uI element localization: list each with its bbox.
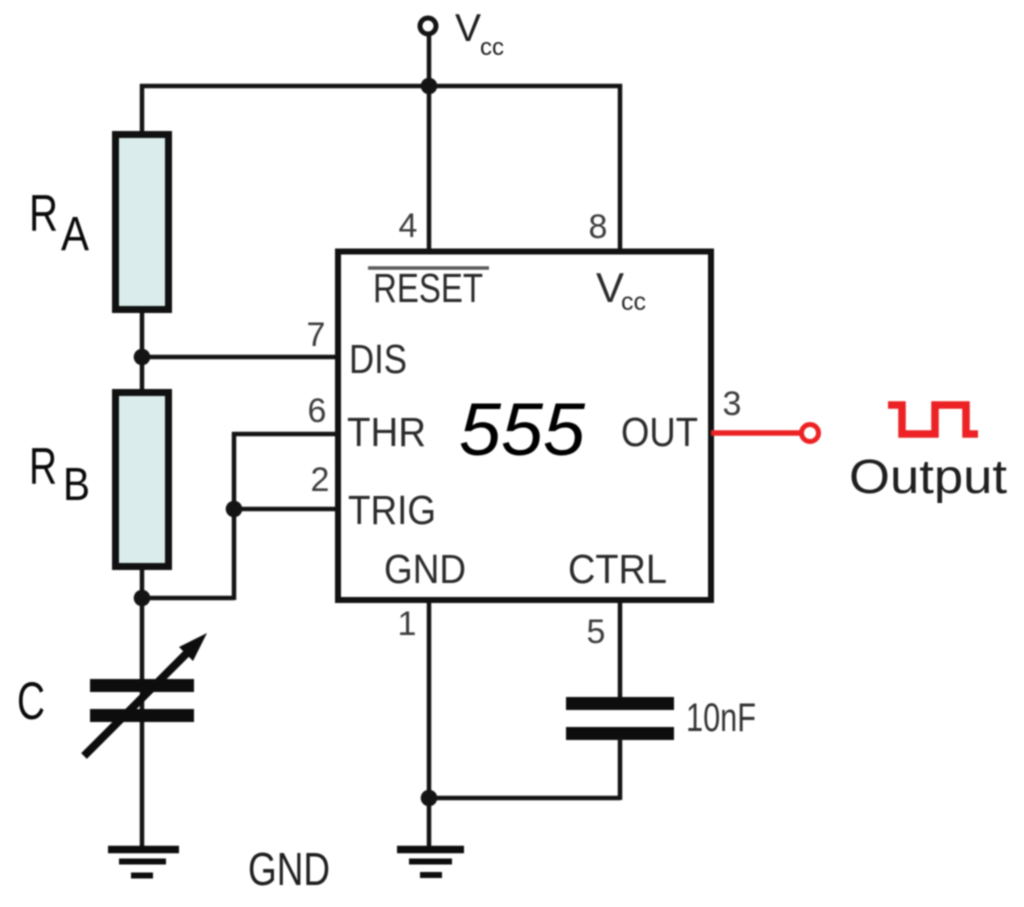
svg-text:THR: THR: [347, 409, 426, 455]
svg-text:GND: GND: [384, 546, 466, 592]
svg-text:3: 3: [723, 385, 742, 423]
svg-text:B: B: [63, 458, 90, 510]
node: TRIG junction dot: [226, 501, 243, 518]
wire: top supply rail: [140, 84, 622, 89]
output terminal (red): [802, 425, 819, 442]
svg-text:555: 555: [459, 388, 586, 471]
svg-text:V: V: [455, 7, 481, 50]
wire: Vcc terminal to pin 4 vertical: [427, 33, 432, 254]
wire: GND pin 1 down: [427, 598, 432, 800]
wire: 10nF to bottom rail: [618, 738, 623, 800]
svg-text:A: A: [61, 208, 89, 261]
resistor RA: [116, 135, 169, 310]
svg-text:2: 2: [311, 461, 330, 499]
wire: RB node to THR/TRIG branch: [140, 596, 234, 601]
wire: junction to right ground: [427, 798, 432, 848]
wire: vertical THR/TRIG branch: [232, 432, 237, 600]
node: Vcc junction dot: [421, 78, 438, 95]
op-amp U1: 555 IC body: [338, 252, 711, 601]
wire: RA to RB through DIS node: [140, 310, 145, 392]
capacitor 10nF top plate: [566, 697, 674, 710]
ground (left): [108, 846, 179, 854]
pin RESET overline: [368, 266, 489, 270]
svg-text:5: 5: [587, 613, 606, 651]
node: ground junction dot: [421, 790, 438, 807]
capacitor C plate bottom: [90, 709, 194, 722]
resistor RB: [116, 393, 169, 567]
svg-text:OUT: OUT: [621, 409, 698, 455]
svg-text:CTRL: CTRL: [568, 546, 667, 592]
svg-text:8: 8: [589, 208, 608, 246]
square wave symbol: [888, 405, 978, 434]
svg-text:6: 6: [308, 392, 327, 430]
wire: rail down to RA: [140, 84, 145, 136]
svg-text:DIS: DIS: [349, 336, 407, 382]
svg-text:cc: cc: [480, 34, 504, 61]
wire: RB down through C to ground: [140, 568, 145, 848]
wire: DIS pin 7: [142, 355, 341, 360]
node: DIS junction dot: [134, 349, 151, 366]
svg-text:1: 1: [398, 605, 417, 643]
svg-text:cc: cc: [621, 288, 646, 316]
svg-text:10nF: 10nF: [686, 696, 756, 740]
svg-text:R: R: [29, 185, 58, 243]
Vcc terminal: [420, 18, 436, 34]
wire: THR pin 6: [232, 432, 341, 437]
svg-text:R: R: [29, 438, 57, 496]
ground (right): [397, 846, 464, 854]
svg-text:GND: GND: [248, 843, 330, 895]
capacitor C plate top: [90, 679, 194, 692]
svg-text:V: V: [596, 264, 624, 311]
svg-text:TRIG: TRIG: [348, 487, 436, 533]
node: bottom of RB junction dot: [134, 590, 151, 607]
capacitor 10nF bottom plate: [566, 727, 674, 740]
wire: CTRL pin 5 down to 10nF: [618, 598, 623, 699]
svg-text:7: 7: [307, 316, 326, 354]
svg-text:4: 4: [399, 207, 418, 245]
wire: TRIG pin 2: [232, 507, 341, 512]
svg-text:RESET: RESET: [373, 265, 483, 311]
wire: bottom rail pin1 to CTRL branch: [429, 796, 620, 801]
svg-text:Output: Output: [849, 451, 1007, 504]
wire: rail down to pin 8: [618, 84, 623, 254]
svg-text:C: C: [17, 672, 45, 731]
wire: OUT pin 3 (red): [711, 430, 800, 436]
capacitor C variable arrow: [84, 647, 193, 756]
